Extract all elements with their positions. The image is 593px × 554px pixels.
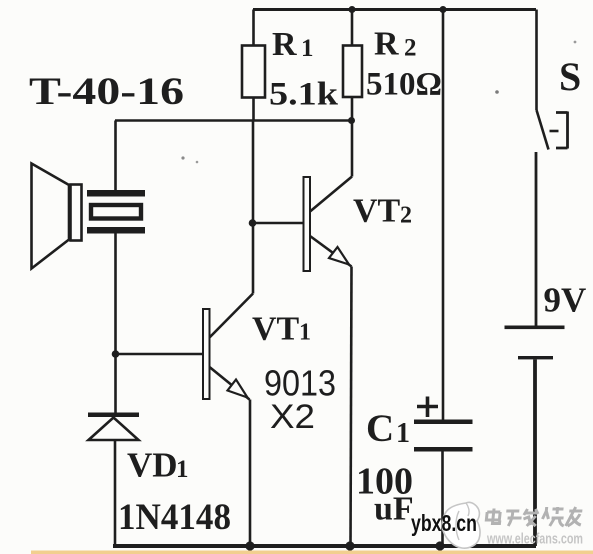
decor scan speck 2 bbox=[196, 161, 199, 164]
wire VT2 base bbox=[253, 222, 304, 225]
wire VT1 emitter drop bbox=[249, 400, 252, 547]
switch S actuator dash bbox=[550, 130, 559, 133]
wire VT2 emitter drop bbox=[351, 267, 352, 547]
wire VT1 collector riser bbox=[252, 121, 255, 294]
node junction VT1 emitter bottom bbox=[245, 541, 254, 550]
node top junction C1 bbox=[440, 6, 447, 13]
node junction C1 bottom bbox=[435, 541, 444, 550]
svg-text:1: 1 bbox=[299, 320, 311, 346]
svg-text:9V: 9V bbox=[544, 281, 587, 320]
svg-text:VT: VT bbox=[252, 311, 300, 348]
transistor VT2 emitter bbox=[310, 236, 352, 267]
label VT2 bbox=[353, 193, 412, 230]
node junction VT2 base bbox=[249, 219, 257, 227]
svg-text:1: 1 bbox=[396, 418, 410, 449]
wire battery bottom lead bbox=[533, 360, 537, 547]
wire R1 bottom lead bbox=[252, 98, 255, 122]
battery negative plate bbox=[518, 356, 553, 359]
speaker BL bottom plate bbox=[87, 227, 145, 234]
svg-text:2: 2 bbox=[400, 203, 412, 229]
wire top rail bbox=[253, 8, 536, 11]
svg-text:uF: uF bbox=[374, 491, 414, 528]
wire bias rail horizontal bbox=[115, 119, 352, 122]
transistor VT2 emitter arrow bbox=[329, 247, 349, 265]
transistor VT2 base bar bbox=[304, 177, 311, 271]
transistor VT1 emitter bbox=[210, 367, 250, 400]
speaker BL cone bbox=[32, 164, 70, 269]
decor bottom yellow line bbox=[31, 551, 593, 554]
label VT1 bbox=[252, 311, 311, 348]
node junction VT2 emitter bottom bbox=[345, 541, 354, 550]
wire VD1 bottom lead bbox=[114, 440, 117, 546]
svg-text:C: C bbox=[366, 407, 394, 450]
capacitor C1 top plate bbox=[414, 420, 473, 425]
decor scan speck 4 bbox=[574, 41, 577, 44]
node junction R2 bottom bbox=[348, 117, 355, 124]
svg-text:1N4148: 1N4148 bbox=[118, 497, 231, 538]
speaker BL coil bbox=[91, 205, 141, 219]
wire VT2 collector lead bbox=[351, 121, 354, 177]
transistor VT1 base bar bbox=[203, 309, 210, 399]
svg-text:R: R bbox=[374, 26, 399, 63]
svg-text:1: 1 bbox=[176, 456, 189, 483]
wire speaker bottom lead bbox=[114, 234, 117, 414]
node top junction R2 bbox=[349, 6, 356, 13]
svg-text:VT: VT bbox=[353, 193, 401, 230]
watermark chinese characters dianzifashaoyou bbox=[486, 507, 583, 526]
capacitor C1 plus sign bbox=[417, 397, 438, 418]
resistor R1 bbox=[242, 46, 265, 98]
diode VD1 cathode bar bbox=[88, 413, 139, 418]
svg-text:T-40-16: T-40-16 bbox=[29, 70, 184, 113]
transistor VT1 emitter arrow bbox=[228, 380, 248, 398]
svg-text:1: 1 bbox=[301, 35, 314, 62]
svg-text:X2: X2 bbox=[270, 398, 315, 436]
wire top right corner drop bbox=[535, 10, 538, 111]
svg-text:www.elecfans.com: www.elecfans.com bbox=[486, 531, 583, 548]
battery positive plate bbox=[505, 326, 565, 330]
diode VD1 triangle bbox=[89, 418, 139, 441]
resistor R2 bbox=[343, 46, 362, 98]
label R1 bbox=[272, 26, 314, 63]
wire R2 bottom lead bbox=[351, 97, 354, 121]
label C1 bbox=[366, 407, 410, 450]
speaker BL top plate bbox=[87, 190, 145, 197]
wire C1 bottom lead bbox=[441, 452, 444, 547]
wire R1 top lead bbox=[252, 10, 255, 46]
svg-text:S: S bbox=[559, 54, 581, 99]
label R2 bbox=[374, 26, 417, 63]
label VD1 bbox=[127, 446, 189, 485]
svg-text:ybx8.cn: ybx8.cn bbox=[411, 510, 477, 536]
wire switch to battery bbox=[535, 152, 538, 326]
switch S actuator bracket bbox=[556, 112, 568, 149]
speaker BL frame bbox=[71, 185, 82, 241]
svg-text:5.1k: 5.1k bbox=[269, 77, 339, 113]
svg-text:510Ω: 510Ω bbox=[366, 67, 442, 103]
watermark elecfans stamp bbox=[442, 502, 480, 548]
svg-text:R: R bbox=[272, 26, 297, 63]
transistor VT2 collector bbox=[310, 177, 352, 212]
node junction VT1 base bbox=[112, 350, 120, 358]
svg-text:2: 2 bbox=[404, 35, 417, 62]
wire C1 top feed bbox=[442, 10, 445, 420]
transistor VT1 collector bbox=[210, 294, 254, 338]
wire bottom rail bbox=[113, 544, 536, 548]
wire VT1 base bbox=[116, 353, 204, 356]
wire R2 top lead bbox=[351, 10, 354, 46]
capacitor C1 bottom plate bbox=[414, 447, 473, 452]
decor scan speck 3 bbox=[495, 90, 499, 94]
decor scan speck 1 bbox=[181, 156, 184, 159]
wire speaker top lead bbox=[114, 121, 117, 191]
svg-text:VD: VD bbox=[127, 446, 178, 485]
switch S blade bbox=[537, 110, 549, 150]
